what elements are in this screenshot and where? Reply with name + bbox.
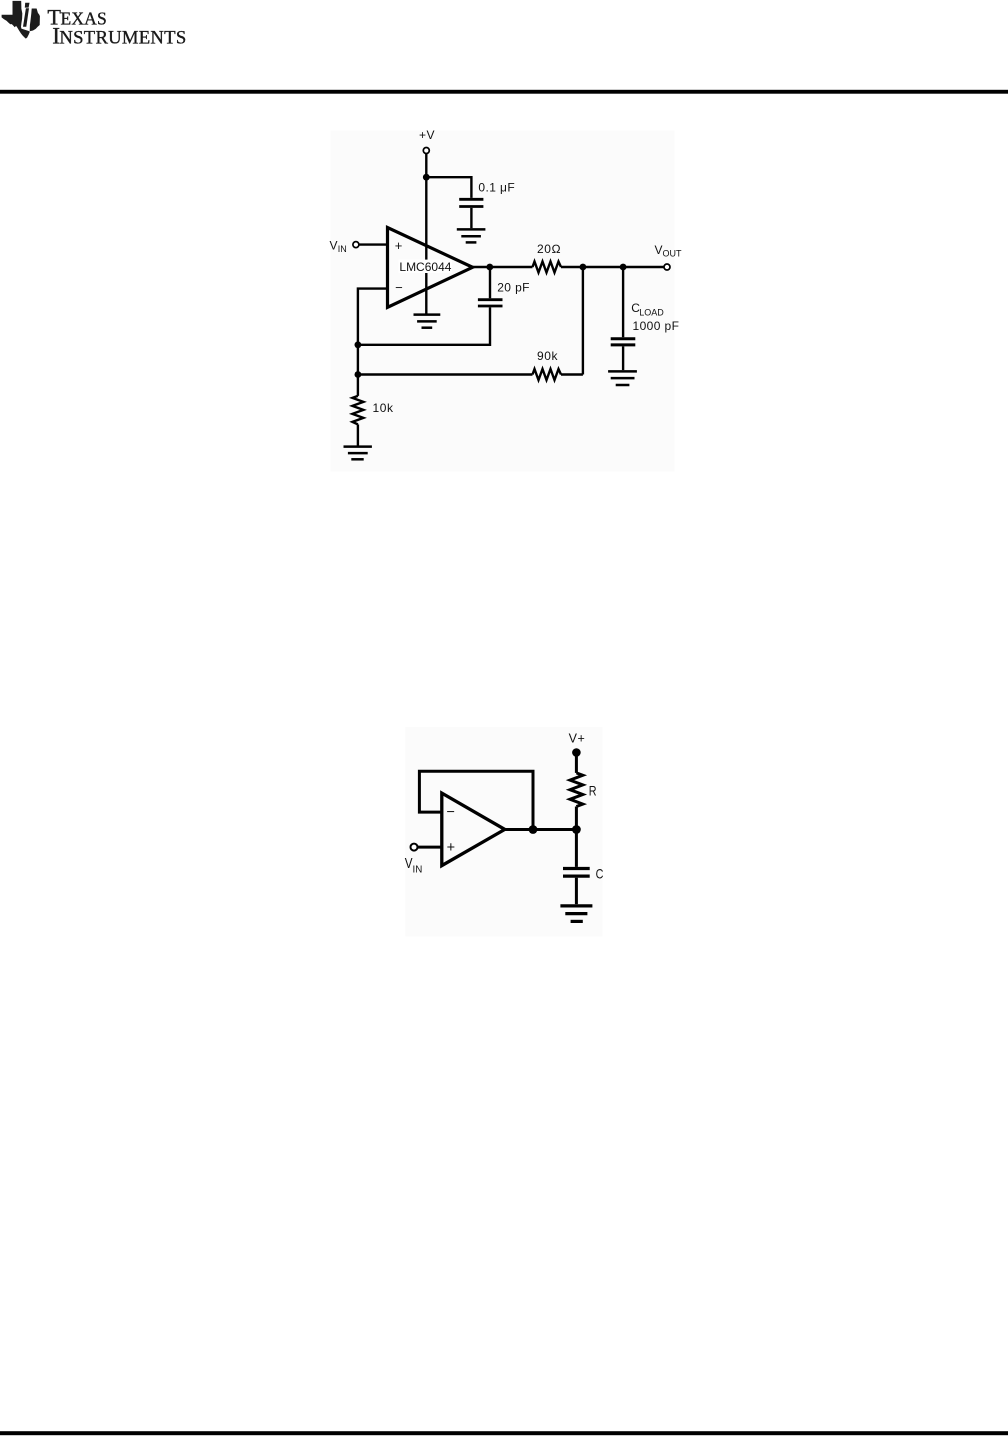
svg-text:10k: 10k xyxy=(373,401,395,415)
capacitor 20 pF plates xyxy=(478,300,503,306)
wire power pin through op-amp to ground pin xyxy=(425,177,427,314)
wire node C down to CLOAD xyxy=(622,267,624,337)
footer rule xyxy=(0,1431,1008,1435)
value label 20 ohm xyxy=(537,242,561,256)
junction node A2 xyxy=(355,371,362,378)
terminal V+ dot xyxy=(572,748,581,757)
capacitor CLOAD plates xyxy=(611,339,636,345)
wire op-amp output to resistor 20 ohm xyxy=(473,266,533,268)
op-amp U2 xyxy=(442,793,505,866)
capacitor 0.1 uF plates xyxy=(459,199,483,206)
part label LMC6044 xyxy=(399,260,453,275)
wire +V terminal to junction xyxy=(425,154,427,177)
value label 90k xyxy=(537,349,559,363)
svg-text:1000 pF: 1000 pF xyxy=(633,319,680,333)
wire R to node D xyxy=(575,807,578,830)
wire node D to capacitor C xyxy=(575,830,578,867)
figure 1 background xyxy=(331,131,675,472)
resistor 20 ohm xyxy=(533,262,562,273)
wire CLOAD to ground xyxy=(622,346,624,370)
wire node B down to 90k xyxy=(582,267,584,375)
resistor 10k xyxy=(352,396,363,425)
pin + label xyxy=(395,238,403,253)
wire 10k to ground xyxy=(357,424,359,445)
value label 10k xyxy=(373,401,395,415)
svg-text:90k: 90k xyxy=(537,349,559,363)
pin + label xyxy=(447,840,455,856)
op-amp U1 LMC6044 xyxy=(388,228,473,308)
part label C xyxy=(596,865,604,881)
capacitor C plates xyxy=(563,869,590,877)
terminal VIN2 xyxy=(411,844,418,851)
svg-text:+: + xyxy=(447,840,455,856)
ground below 10k xyxy=(344,447,372,460)
ground below 0.1 uF xyxy=(457,229,486,242)
junction dot +V xyxy=(423,174,430,181)
TI logo Texas-state mark xyxy=(2,1,40,39)
svg-text:−: − xyxy=(395,280,403,295)
value label 1000 pF xyxy=(633,319,680,333)
svg-text:INSTRUMENTS: INSTRUMENTS xyxy=(52,23,186,49)
wire 90k to node B xyxy=(561,373,583,375)
wire junction to capacitor C1 xyxy=(426,177,471,198)
node V+ label xyxy=(569,731,586,745)
wire resistor to VOUT xyxy=(561,266,664,268)
wire node A to node A2 and resistor 10k top xyxy=(357,345,359,396)
node VIN2 label xyxy=(405,855,423,875)
wire V+ to resistor R xyxy=(575,753,578,773)
svg-text:0.1 μF: 0.1 μF xyxy=(478,180,515,194)
svg-text:−: − xyxy=(446,804,454,820)
junction node A xyxy=(355,341,362,348)
junction node C xyxy=(620,264,627,271)
junction output node xyxy=(486,264,493,271)
svg-text:OUT: OUT xyxy=(663,249,683,259)
header rule xyxy=(0,90,1008,94)
svg-text:+V: +V xyxy=(419,128,435,142)
wire VIN to op-amp xyxy=(359,243,387,245)
resistor R xyxy=(570,773,583,807)
svg-text:V: V xyxy=(405,855,413,872)
svg-text:V: V xyxy=(655,243,663,257)
terminal VOUT xyxy=(664,264,670,270)
svg-text:+: + xyxy=(395,238,403,253)
node VOUT label xyxy=(655,243,683,259)
wire C to ground xyxy=(575,878,578,905)
wire inverting input to node A xyxy=(358,289,388,345)
svg-text:LOAD: LOAD xyxy=(639,307,664,317)
svg-text:20Ω: 20Ω xyxy=(537,242,561,256)
junction feedback tap xyxy=(529,825,538,834)
wire capacitor to ground xyxy=(470,208,472,228)
wire node A2 to resistor 90k xyxy=(358,373,533,375)
figure 2 background xyxy=(405,727,602,937)
value label 20 pF xyxy=(497,280,530,294)
terminal +V xyxy=(423,148,429,154)
ground below op-amp xyxy=(414,315,441,328)
resistor 90k xyxy=(533,369,562,380)
wire op-amp output to node D xyxy=(505,828,577,831)
TI wordmark INSTRUMENTS xyxy=(52,23,186,49)
ground below C xyxy=(560,906,592,922)
svg-text:IN: IN xyxy=(338,244,347,254)
wire VIN2 to op-amp xyxy=(418,846,442,849)
part label CLOAD xyxy=(631,301,664,317)
node +V label xyxy=(419,128,435,142)
wire node A to capacitor 20 pF xyxy=(358,307,490,344)
junction node D xyxy=(572,825,581,834)
terminal VIN xyxy=(353,242,359,248)
ground below CLOAD xyxy=(608,371,637,385)
node VIN label xyxy=(330,238,347,254)
value label 0.1 uF xyxy=(478,180,515,194)
junction node B xyxy=(580,264,587,271)
feedback wire to inverting input xyxy=(419,771,533,829)
part label R xyxy=(589,782,597,798)
pin - label xyxy=(446,804,454,820)
svg-text:V+: V+ xyxy=(569,731,586,745)
TI wordmark TEXAS xyxy=(47,4,106,29)
svg-text:IN: IN xyxy=(413,863,423,875)
svg-text:C: C xyxy=(596,865,604,881)
svg-text:V: V xyxy=(330,238,338,252)
svg-text:R: R xyxy=(589,782,597,798)
wire 20 pF to output node xyxy=(489,267,491,298)
svg-text:20 pF: 20 pF xyxy=(497,280,530,294)
pin - label xyxy=(395,280,403,295)
svg-text:LMC6044: LMC6044 xyxy=(399,260,451,274)
